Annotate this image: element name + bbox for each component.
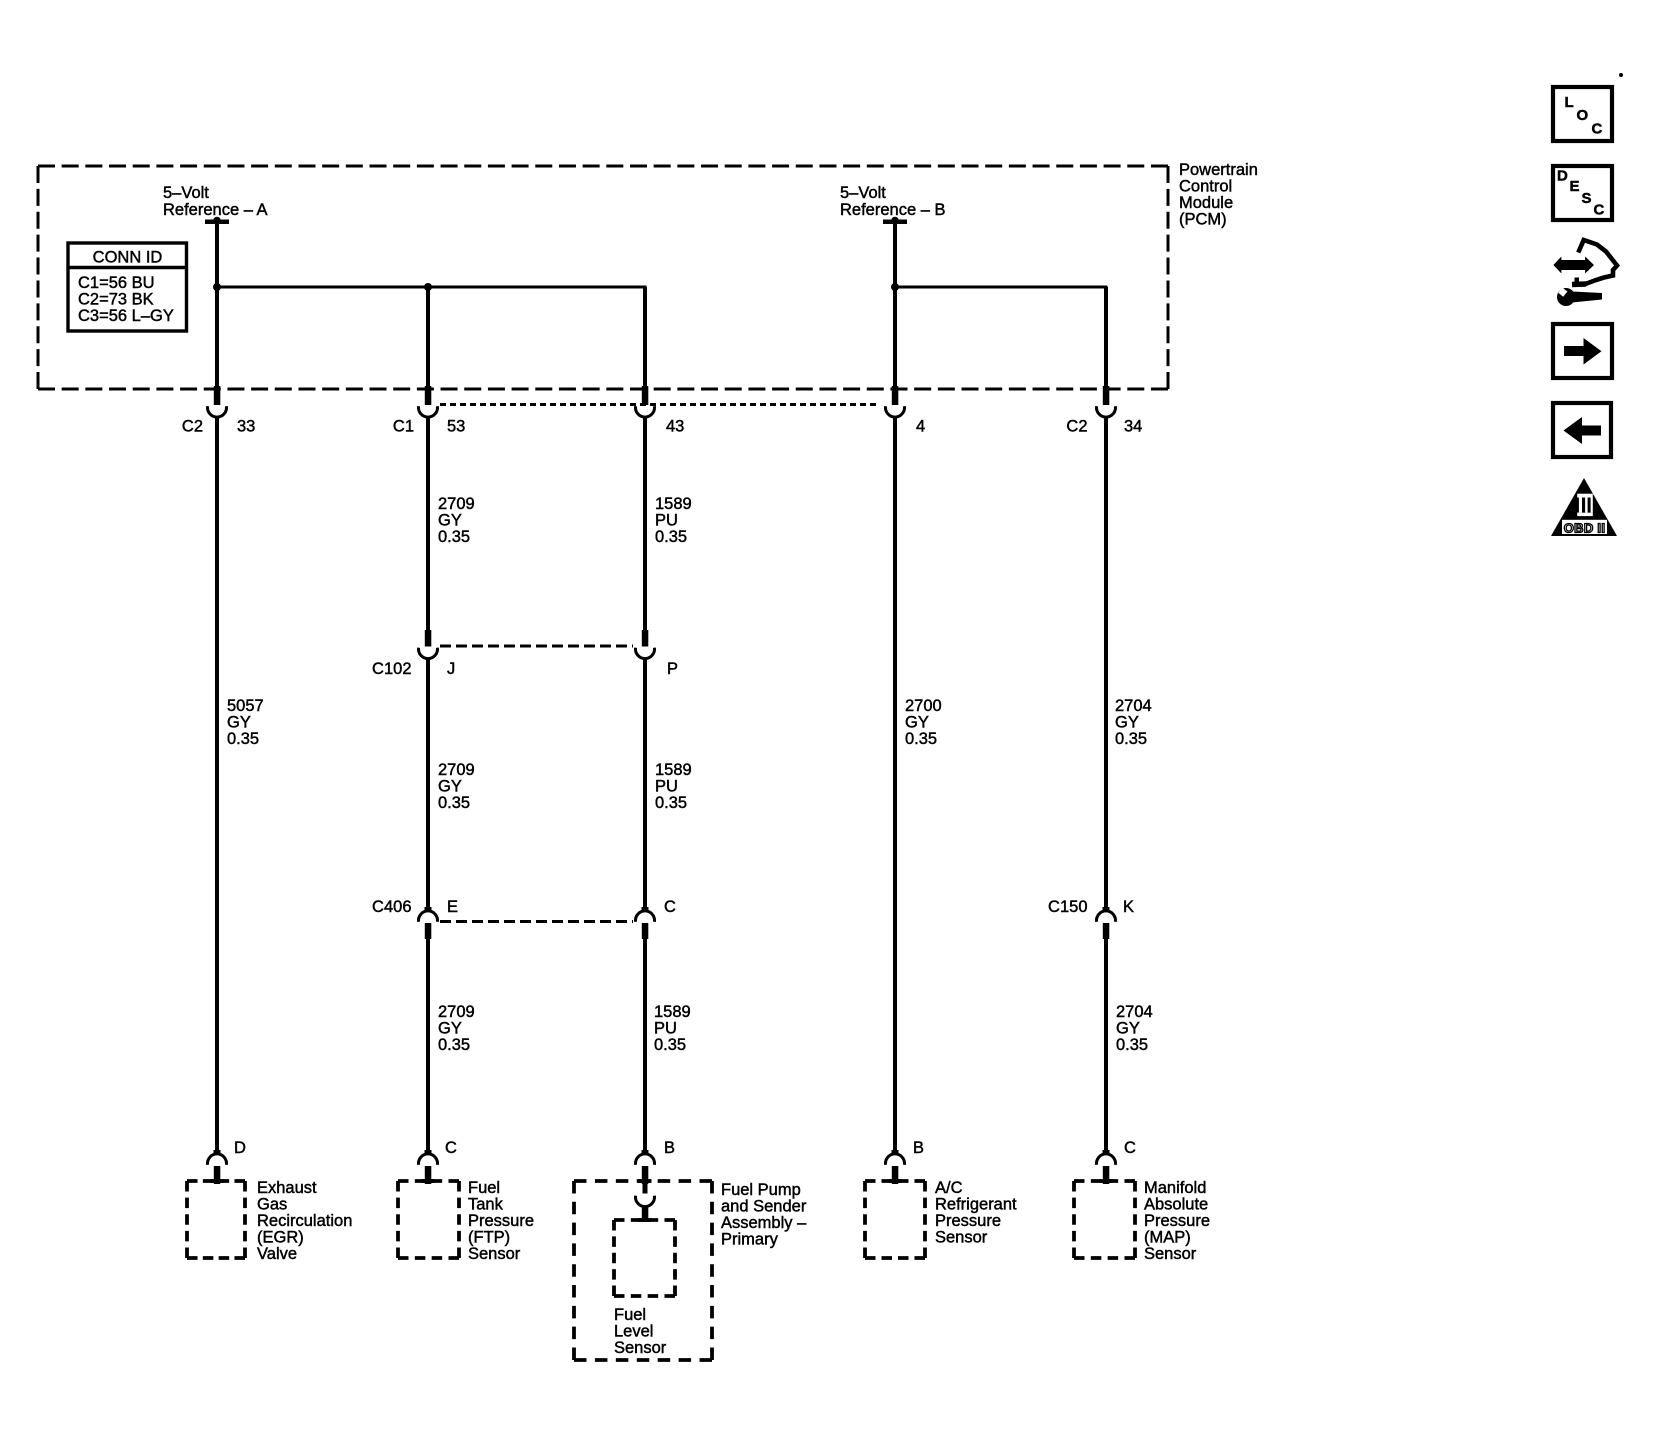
svg-text:Primary: Primary (721, 1231, 779, 1249)
svg-text:PU: PU (655, 778, 678, 796)
svg-text:C406: C406 (372, 898, 411, 916)
svg-text:(PCM): (PCM) (1179, 211, 1227, 229)
svg-text:Fuel Pump: Fuel Pump (721, 1181, 801, 1199)
svg-text:C: C (1124, 1139, 1136, 1157)
svg-text:C: C (1592, 121, 1603, 138)
svg-text:Manifold: Manifold (1144, 1179, 1206, 1197)
svg-text:2700: 2700 (905, 697, 942, 715)
svg-text:5–Volt: 5–Volt (840, 184, 886, 202)
svg-text:B: B (664, 1139, 675, 1157)
svg-text:C3=56 L–GY: C3=56 L–GY (78, 307, 174, 325)
svg-text:J: J (447, 660, 455, 678)
svg-text:Pressure: Pressure (1144, 1212, 1210, 1230)
svg-text:Fuel: Fuel (614, 1306, 646, 1324)
svg-text:Absolute: Absolute (1144, 1196, 1208, 1214)
svg-text:2709: 2709 (438, 495, 475, 513)
svg-text:(MAP): (MAP) (1144, 1229, 1191, 1247)
svg-text:PU: PU (655, 512, 678, 530)
svg-text:Tank: Tank (468, 1196, 504, 1214)
svg-text:Exhaust: Exhaust (257, 1179, 317, 1197)
svg-text:GY: GY (227, 714, 251, 732)
svg-text:0.35: 0.35 (1115, 730, 1147, 748)
svg-text:0.35: 0.35 (438, 794, 470, 812)
svg-text:B: B (913, 1139, 924, 1157)
svg-text:0.35: 0.35 (655, 794, 687, 812)
svg-text:E: E (1570, 178, 1580, 195)
svg-text:C150: C150 (1048, 898, 1087, 916)
svg-text:Pressure: Pressure (935, 1212, 1001, 1230)
svg-text:Refrigerant: Refrigerant (935, 1196, 1017, 1214)
svg-text:0.35: 0.35 (227, 730, 259, 748)
svg-text:0.35: 0.35 (905, 730, 937, 748)
svg-text:Gas: Gas (257, 1196, 287, 1214)
svg-text:Level: Level (614, 1323, 653, 1341)
svg-text:Sensor: Sensor (935, 1229, 988, 1247)
svg-text:GY: GY (905, 714, 929, 732)
svg-text:C2: C2 (1066, 418, 1087, 436)
svg-text:GY: GY (438, 778, 462, 796)
svg-text:O: O (1577, 107, 1589, 124)
svg-text:D: D (234, 1139, 246, 1157)
svg-text:Valve: Valve (257, 1245, 297, 1263)
svg-text:(FTP): (FTP) (468, 1229, 510, 1247)
svg-text:C102: C102 (372, 660, 411, 678)
svg-text:L: L (1565, 94, 1574, 111)
svg-text:Sensor: Sensor (468, 1245, 521, 1263)
svg-text:C: C (445, 1139, 457, 1157)
svg-text:Recirculation: Recirculation (257, 1212, 352, 1230)
svg-text:0.35: 0.35 (655, 528, 687, 546)
svg-text:Fuel: Fuel (468, 1179, 500, 1197)
svg-text:C2=73 BK: C2=73 BK (78, 291, 154, 309)
svg-text:5057: 5057 (227, 697, 264, 715)
svg-text:Sensor: Sensor (1144, 1245, 1197, 1263)
svg-text:and Sender: and Sender (721, 1198, 807, 1216)
svg-text:Assembly –: Assembly – (721, 1214, 807, 1232)
svg-text:Reference – A: Reference – A (163, 201, 268, 219)
svg-text:C2: C2 (182, 418, 203, 436)
svg-text:4: 4 (916, 418, 925, 436)
svg-text:0.35: 0.35 (1116, 1036, 1148, 1054)
svg-text:Sensor: Sensor (614, 1339, 667, 1357)
svg-text:C: C (664, 898, 676, 916)
svg-text:D: D (1557, 168, 1568, 185)
svg-text:Powertrain: Powertrain (1179, 161, 1258, 179)
svg-text:(EGR): (EGR) (257, 1229, 304, 1247)
svg-text:K: K (1123, 898, 1134, 916)
svg-text:2704: 2704 (1115, 697, 1152, 715)
svg-text:GY: GY (1115, 714, 1139, 732)
svg-text:C1=56 BU: C1=56 BU (78, 274, 155, 292)
svg-text:1589: 1589 (655, 761, 692, 779)
svg-text:OBD II: OBD II (1564, 520, 1606, 535)
svg-text:C: C (1594, 202, 1605, 219)
svg-text:E: E (447, 898, 458, 916)
svg-text:34: 34 (1124, 418, 1142, 436)
svg-text:CONN ID: CONN ID (93, 249, 163, 267)
svg-text:P: P (667, 660, 678, 678)
svg-text:2709: 2709 (438, 761, 475, 779)
svg-text:1589: 1589 (655, 495, 692, 513)
svg-text:GY: GY (438, 1020, 462, 1038)
svg-text:Module: Module (1179, 194, 1233, 212)
svg-text:GY: GY (1116, 1020, 1140, 1038)
svg-text:Pressure: Pressure (468, 1212, 534, 1230)
svg-text:53: 53 (447, 418, 465, 436)
svg-text:2704: 2704 (1116, 1003, 1153, 1021)
svg-text:2709: 2709 (438, 1003, 475, 1021)
svg-text:5–Volt: 5–Volt (163, 184, 209, 202)
svg-text:GY: GY (438, 512, 462, 530)
svg-text:A/C: A/C (935, 1179, 963, 1197)
svg-text:Control: Control (1179, 178, 1232, 196)
svg-text:C1: C1 (393, 418, 414, 436)
svg-text:43: 43 (666, 418, 684, 436)
svg-text:1589: 1589 (654, 1003, 691, 1021)
svg-text:33: 33 (237, 418, 255, 436)
svg-text:0.35: 0.35 (438, 1036, 470, 1054)
svg-text:0.35: 0.35 (438, 528, 470, 546)
svg-text:Reference – B: Reference – B (840, 201, 945, 219)
svg-text:PU: PU (654, 1020, 677, 1038)
svg-text:0.35: 0.35 (654, 1036, 686, 1054)
svg-text:S: S (1582, 190, 1592, 207)
